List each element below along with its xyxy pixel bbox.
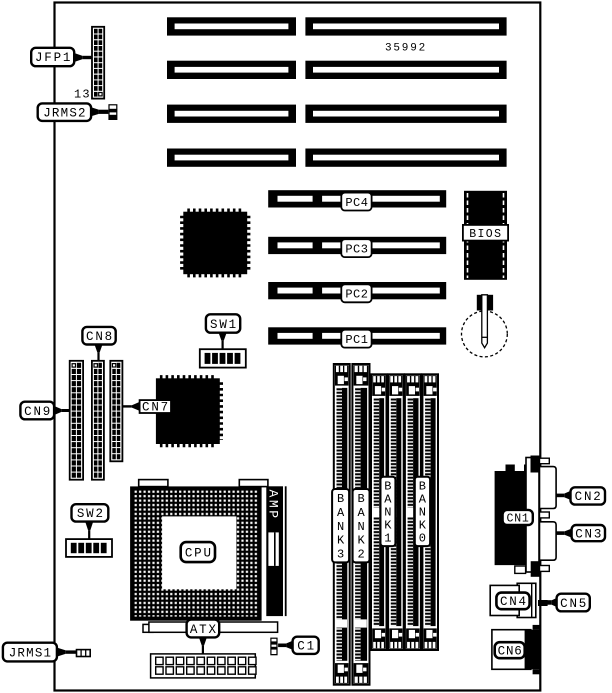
svg-text:JFP1: JFP1 — [35, 51, 72, 65]
svg-text:CN4: CN4 — [500, 595, 528, 609]
serial port CN2 connector — [540, 467, 557, 509]
label SW2 — [72, 504, 109, 521]
svg-text:K: K — [419, 519, 427, 533]
svg-text:SW2: SW2 — [77, 507, 105, 521]
pointer CN3 — [557, 529, 572, 538]
DIP switch SW2 — [66, 539, 112, 557]
DIMM slot BANK3 — [334, 364, 350, 685]
svg-text:BIOS: BIOS — [469, 228, 502, 241]
svg-text:13: 13 — [74, 88, 91, 102]
ISA slot row 2 left — [167, 61, 296, 79]
svg-text:A: A — [337, 506, 345, 520]
label JRMS2 — [38, 103, 91, 121]
ISA slot row 3 left — [167, 105, 296, 123]
pointer CN5 — [546, 598, 557, 607]
SIMM slot 5 — [405, 374, 421, 650]
label JFP1 — [31, 48, 74, 66]
capacitor C1 — [270, 638, 277, 656]
label CN7 — [140, 400, 171, 415]
svg-text:N: N — [357, 520, 364, 534]
label CN8 — [82, 327, 115, 345]
svg-text:CN1: CN1 — [507, 512, 530, 525]
connector CN4 body — [490, 583, 536, 617]
label C1 — [293, 637, 319, 654]
svg-text:CN2: CN2 — [575, 490, 603, 504]
svg-text:1: 1 — [384, 532, 391, 546]
pointer JFP1 — [74, 53, 92, 62]
connector CN6 body — [492, 625, 541, 674]
label SW1 — [206, 314, 240, 332]
svg-text:PC4: PC4 — [345, 196, 368, 210]
pointer SW1 — [219, 333, 227, 349]
pin header CN9 column — [70, 361, 83, 480]
svg-text:N: N — [419, 506, 426, 520]
label BANK2 — [353, 489, 370, 562]
label BANK0 — [415, 477, 430, 546]
ATX power connector — [151, 654, 256, 678]
pointer C1 — [278, 641, 293, 650]
svg-text:K: K — [357, 534, 365, 548]
ISA slot row 4 right — [305, 149, 506, 167]
svg-text:PC2: PC2 — [345, 288, 368, 302]
DIP switch SW1 — [200, 349, 246, 367]
svg-text:PC1: PC1 — [345, 333, 368, 347]
BIOS chip — [463, 191, 508, 280]
chip U1 (QFP) — [183, 212, 247, 275]
svg-text:0: 0 — [419, 532, 426, 546]
ISA slot row 3 right — [305, 105, 506, 123]
chip U2 — [156, 378, 220, 444]
pointer ATX — [199, 637, 207, 653]
svg-text:C1: C1 — [297, 640, 316, 654]
board outline — [55, 3, 541, 691]
svg-text:ATX: ATX — [190, 623, 218, 637]
svg-text:B: B — [384, 479, 391, 493]
svg-text:N: N — [337, 520, 344, 534]
serial port CN3 connector — [540, 522, 557, 560]
CPU socket U3 — [130, 486, 262, 620]
label CN3 — [572, 525, 605, 541]
svg-text:CN3: CN3 — [575, 527, 603, 541]
pin header JFP1 — [92, 27, 104, 99]
svg-text:B: B — [337, 492, 344, 506]
svg-text:JRMS1: JRMS1 — [9, 646, 53, 660]
keyboard connector CN1 — [495, 456, 550, 577]
connector AMP — [265, 486, 286, 616]
PCI slot PC1 — [268, 327, 446, 347]
battery B1 — [462, 295, 508, 357]
jumper JRMS1 — [77, 650, 91, 657]
SIMM slot 4 — [388, 374, 404, 650]
jumper JRMS2 — [108, 104, 117, 120]
ISA slot row 4 left — [167, 149, 296, 167]
svg-text:CN7: CN7 — [142, 401, 170, 415]
pointer SW2 — [85, 522, 93, 540]
svg-text:B: B — [357, 492, 364, 506]
label CPU — [181, 542, 215, 562]
svg-text:AMP: AMP — [265, 490, 280, 521]
svg-text:SW1: SW1 — [210, 318, 238, 332]
svg-text:CN9: CN9 — [24, 405, 52, 419]
ISA slot row 2 right — [305, 61, 506, 79]
pointer CN2 — [557, 491, 571, 500]
pointer CN5 bar — [538, 600, 548, 606]
ISA slot row 1 right — [305, 17, 506, 35]
label CN9 — [20, 402, 54, 420]
svg-text:JRMS2: JRMS2 — [43, 106, 87, 120]
svg-text:A: A — [357, 506, 365, 520]
SIMM slot 3 — [371, 374, 387, 650]
svg-text:CN5: CN5 — [560, 597, 588, 611]
svg-text:N: N — [384, 506, 391, 520]
CPU socket tabs — [139, 480, 268, 487]
label BANK3 — [332, 489, 349, 562]
pointer CN9 — [54, 406, 69, 415]
label ATX — [187, 620, 220, 638]
PCI slot PC2 — [268, 282, 446, 302]
label CN4 — [496, 593, 529, 610]
label CN2 — [571, 487, 606, 504]
pointer JRMS1 — [57, 648, 77, 657]
svg-text:A: A — [419, 492, 427, 506]
svg-text:2: 2 — [357, 548, 364, 562]
svg-text:K: K — [337, 534, 345, 548]
PCI slot PC4 — [268, 190, 446, 210]
PCI slot PC3 — [268, 237, 446, 257]
label JRMS1 — [3, 643, 57, 662]
retention bar — [143, 622, 278, 632]
pin header CN8 column — [92, 361, 104, 480]
label CN1 — [503, 510, 533, 526]
bracket tab — [540, 512, 550, 518]
pin header CN7 column — [110, 361, 122, 462]
SIMM slot 6 — [422, 374, 438, 650]
svg-text:CN6: CN6 — [498, 645, 523, 659]
label CN6 — [495, 642, 525, 658]
svg-text:B: B — [419, 479, 426, 493]
svg-text:PC3: PC3 — [345, 242, 368, 256]
pointer CN7 — [122, 402, 139, 411]
svg-text:35992: 35992 — [385, 43, 427, 55]
ISA slot row 1 left — [167, 17, 296, 35]
label CN5 — [557, 594, 590, 612]
pointer JRMS2 — [91, 107, 108, 116]
svg-text:A: A — [384, 492, 392, 506]
svg-text:3: 3 — [337, 548, 344, 562]
svg-text:CN8: CN8 — [86, 330, 114, 344]
label BANK1 — [381, 477, 396, 546]
DIMM slot BANK2 — [352, 364, 369, 685]
pointer CN8 — [95, 345, 103, 361]
svg-text:K: K — [384, 519, 392, 533]
svg-text:CPU: CPU — [185, 546, 213, 560]
